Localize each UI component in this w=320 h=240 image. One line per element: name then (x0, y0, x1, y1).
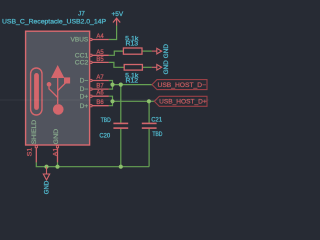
svg-text:GND: GND (164, 60, 170, 75)
svg-text:VBUS: VBUS (71, 38, 89, 44)
svg-text:B7: B7 (96, 84, 104, 90)
svg-text:USB_HOST_D−: USB_HOST_D− (158, 82, 207, 89)
svg-text:+5V: +5V (112, 12, 124, 18)
svg-text:D+: D+ (80, 104, 89, 110)
svg-text:D−: D− (80, 79, 89, 85)
svg-text:R12: R12 (126, 79, 139, 85)
svg-text:USB_C_Receptacle_USB2.0_14P: USB_C_Receptacle_USB2.0_14P (2, 18, 106, 25)
svg-text:B5: B5 (96, 57, 104, 63)
svg-text:CC1: CC1 (75, 53, 89, 59)
svg-text:A5: A5 (96, 50, 104, 56)
svg-text:GND: GND (45, 180, 51, 194)
svg-text:B6: B6 (96, 100, 104, 106)
svg-text:GND: GND (164, 43, 170, 58)
svg-text:S1: S1 (28, 147, 34, 156)
svg-text:GND: GND (53, 128, 60, 144)
svg-text:A1: A1 (53, 147, 59, 156)
svg-text:A4: A4 (96, 34, 104, 40)
svg-text:D+: D+ (80, 94, 89, 100)
svg-text:R13: R13 (126, 41, 139, 47)
svg-text:A6: A6 (96, 91, 104, 97)
svg-text:SHIELD: SHIELD (31, 119, 38, 144)
svg-text:TBD: TBD (101, 118, 112, 124)
svg-text:D−: D− (80, 87, 89, 93)
svg-text:TBD: TBD (152, 132, 163, 138)
svg-text:CC2: CC2 (75, 61, 89, 67)
svg-text:C20: C20 (99, 133, 110, 139)
svg-text:C21: C21 (151, 117, 162, 123)
svg-text:A7: A7 (96, 75, 104, 81)
svg-text:J7: J7 (78, 11, 85, 18)
